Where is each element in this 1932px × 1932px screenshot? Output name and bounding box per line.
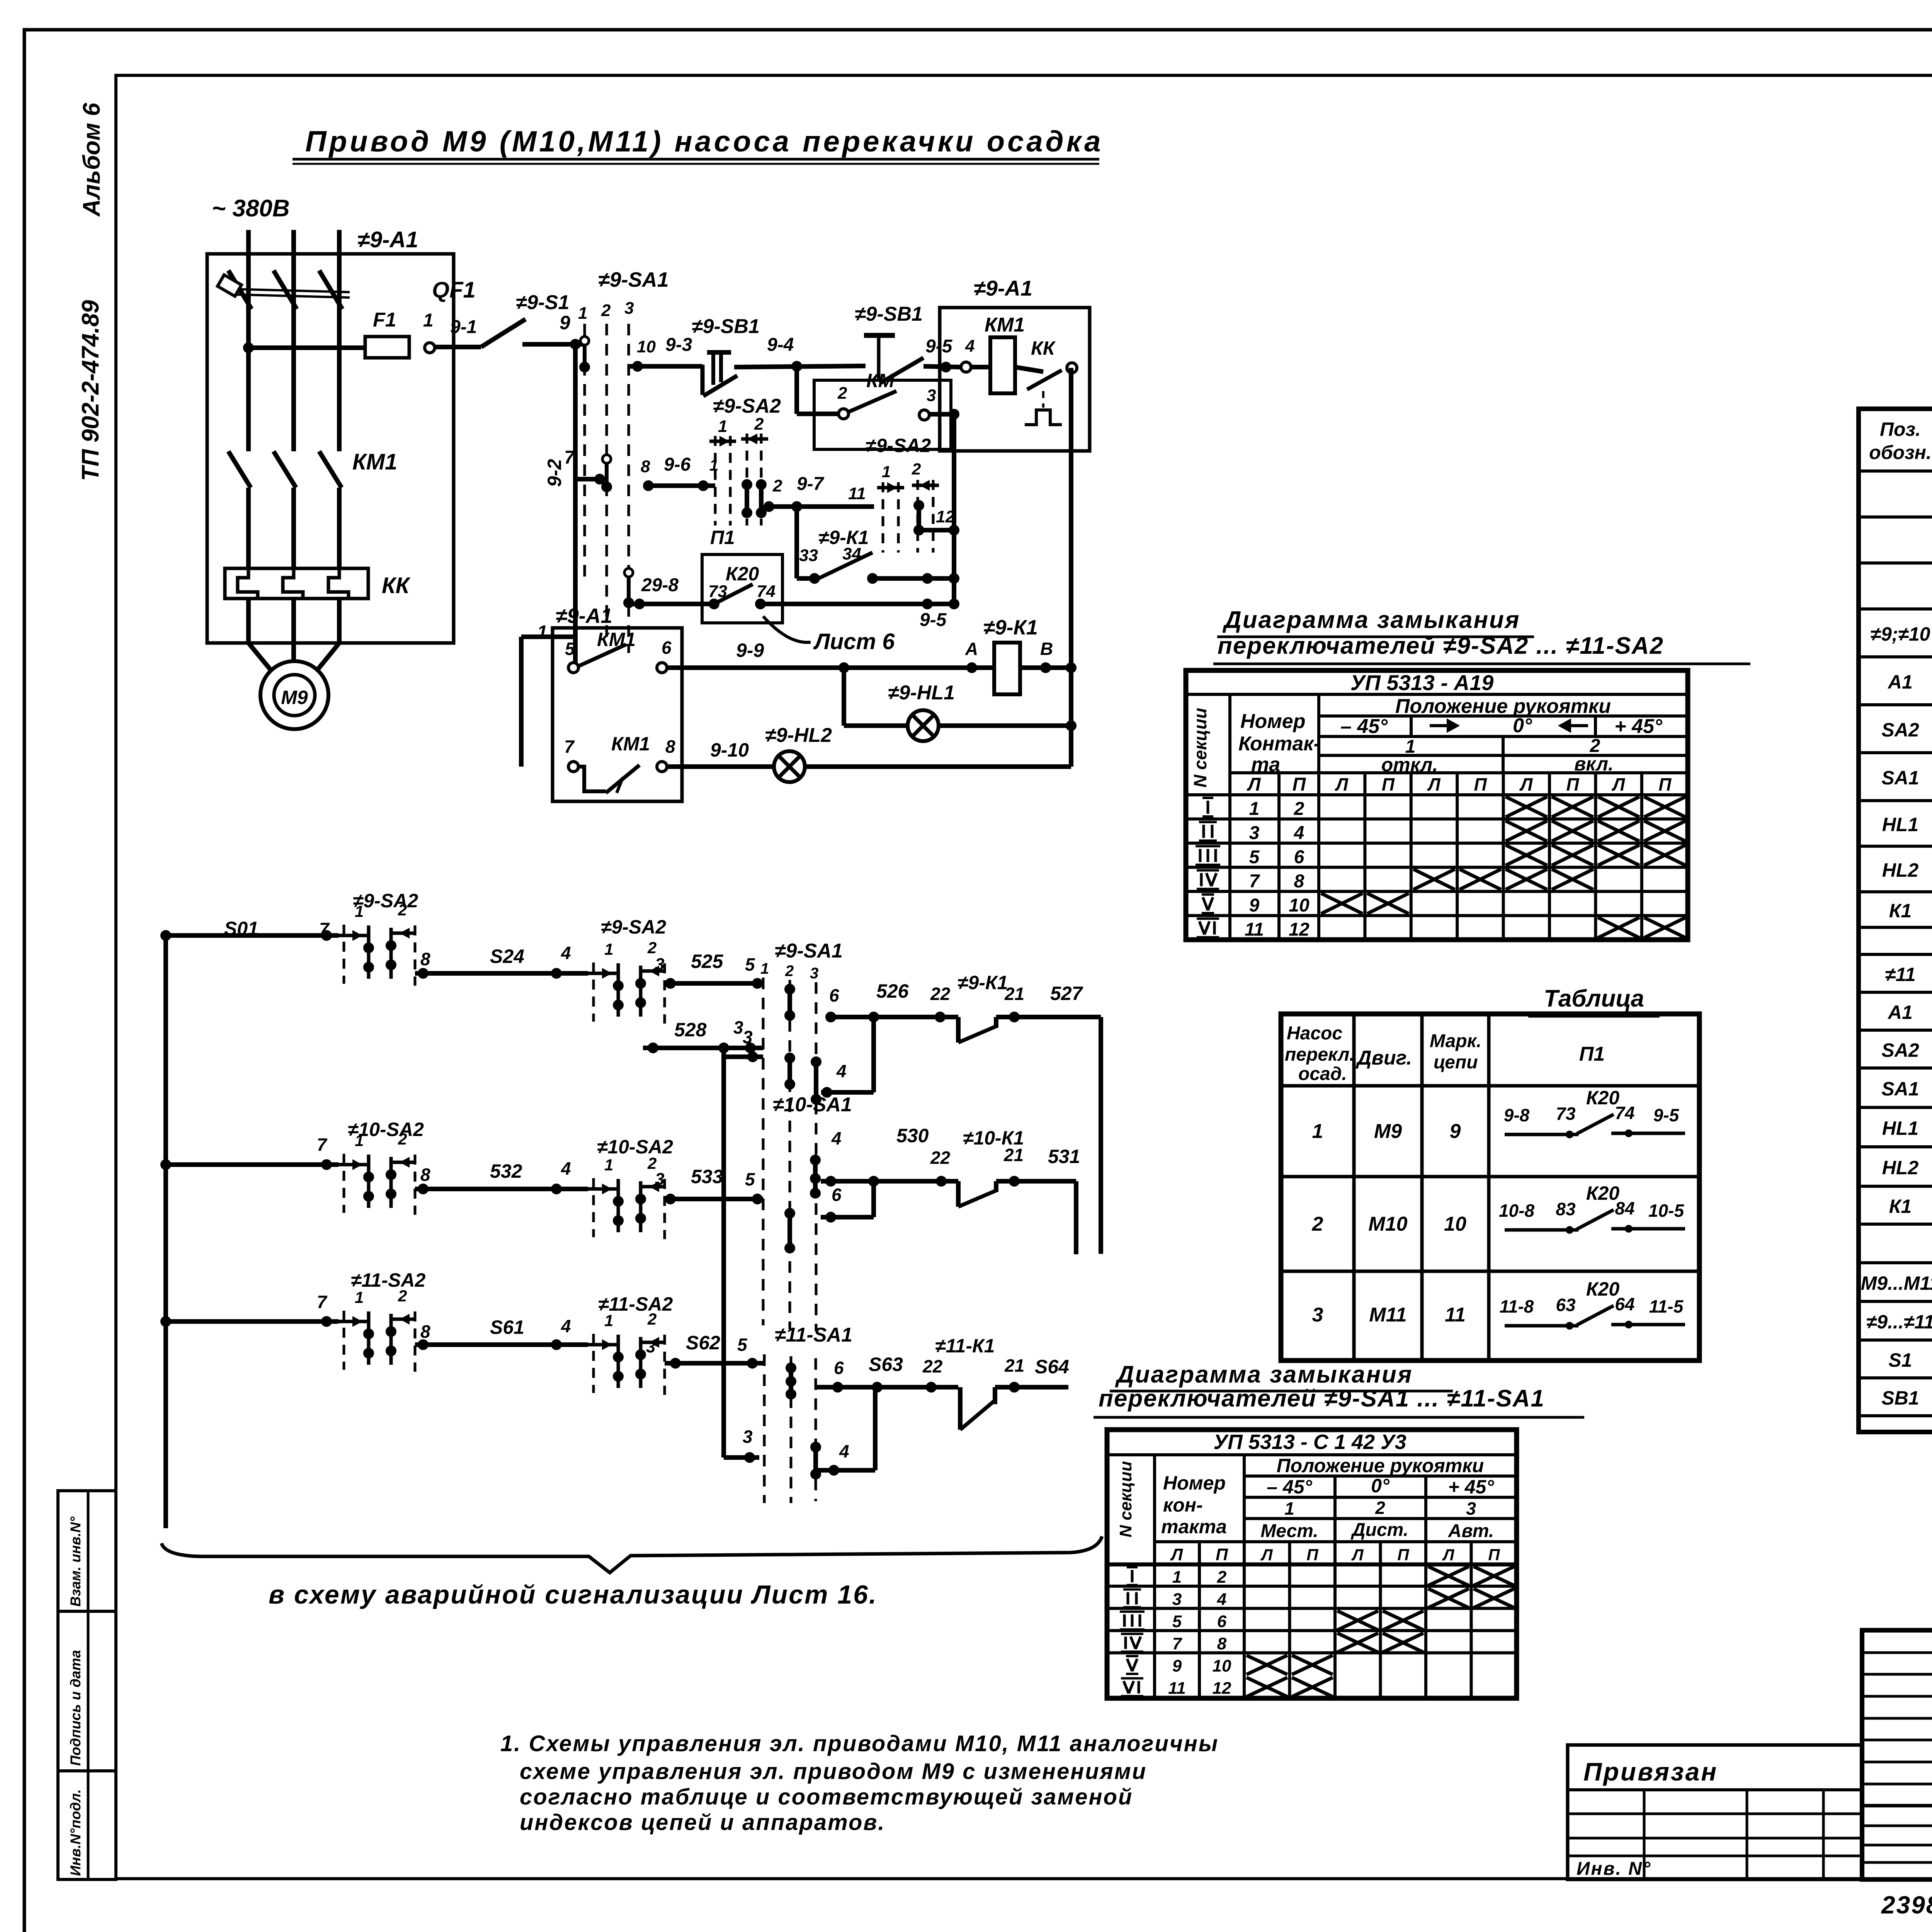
svg-text:12: 12 xyxy=(1289,920,1310,940)
stamp box Подпись и дата xyxy=(58,1611,116,1771)
svg-text:6: 6 xyxy=(1217,1612,1227,1631)
svg-text:2: 2 xyxy=(398,1130,407,1148)
svg-text:≠9-А1: ≠9-А1 xyxy=(556,604,612,628)
svg-text:Лист 6: Лист 6 xyxy=(813,629,895,654)
svg-text:1: 1 xyxy=(1249,799,1260,819)
svg-text:Л: Л xyxy=(1442,1546,1455,1564)
svg-text:УП 5313 - А19: УП 5313 - А19 xyxy=(1350,670,1494,695)
svg-text:3: 3 xyxy=(927,386,936,405)
svg-text:2: 2 xyxy=(647,1310,656,1328)
svg-text:9-5: 9-5 xyxy=(920,610,947,630)
svg-text:Инв. N°: Инв. N° xyxy=(1577,1859,1651,1879)
svg-text:9-10: 9-10 xyxy=(710,739,749,761)
svg-text:9-4: 9-4 xyxy=(767,335,794,355)
svg-text:2: 2 xyxy=(1375,1498,1385,1518)
svg-text:Л: Л xyxy=(1351,1546,1364,1564)
svg-text:9: 9 xyxy=(1172,1656,1182,1675)
svg-text:9-6: 9-6 xyxy=(664,454,691,475)
svg-text:≠9...≠11: ≠9...≠11 xyxy=(1866,1311,1932,1333)
svg-text:П: П xyxy=(1293,774,1306,795)
svg-text:6: 6 xyxy=(832,1185,842,1205)
svg-text:1. Схемы управления эл. п: 1. Схемы управления эл. приводами М10, М… xyxy=(500,1731,1219,1756)
wire L1 to fuse xyxy=(248,345,365,350)
leader to Лист 6 xyxy=(763,616,811,642)
svg-text:Альбом 6: Альбом 6 xyxy=(78,102,105,217)
svg-text:≠9-SA2: ≠9-SA2 xyxy=(866,435,931,456)
SA2 mid contacts xyxy=(745,485,749,513)
svg-text:≠10-SA1: ≠10-SA1 xyxy=(773,1094,852,1116)
pump table xyxy=(1281,1014,1699,1361)
svg-text:2: 2 xyxy=(912,460,921,478)
svg-text:1: 1 xyxy=(537,622,548,643)
SA1-11 contact lower xyxy=(813,1447,818,1474)
svg-text:К20: К20 xyxy=(1586,1087,1620,1109)
svg-text:10: 10 xyxy=(637,337,656,356)
wire to node xyxy=(522,342,585,347)
svg-text:Авт.: Авт. xyxy=(1448,1521,1494,1541)
svg-text:527: 527 xyxy=(1050,983,1083,1004)
svg-text:Двиг.: Двиг. xyxy=(1355,1047,1412,1069)
svg-text:5: 5 xyxy=(1172,1612,1182,1631)
svg-text:3: 3 xyxy=(624,299,634,318)
svg-text:М9...М11: М9...М11 xyxy=(1861,1272,1932,1294)
svg-text:73: 73 xyxy=(1556,1104,1576,1124)
svg-text:Дист.: Дист. xyxy=(1350,1520,1408,1540)
phase wire L1 xyxy=(246,230,251,451)
svg-text:HL2: HL2 xyxy=(1882,1157,1919,1179)
svg-text:S24: S24 xyxy=(490,946,524,967)
svg-text:КМ1: КМ1 xyxy=(985,314,1025,336)
loop 4 to row xyxy=(821,1090,874,1095)
svg-text:Насос: Насос xyxy=(1287,1023,1342,1044)
svg-text:Мест.: Мест. xyxy=(1260,1521,1318,1541)
svg-text:Диаграмма замыкания: Диаграмма замыкания xyxy=(1115,1361,1413,1388)
svg-text:К20: К20 xyxy=(1586,1182,1620,1204)
motor M9 xyxy=(260,661,328,729)
svg-text:11-8: 11-8 xyxy=(1500,1296,1534,1316)
svg-text:8: 8 xyxy=(665,736,675,757)
svg-text:11: 11 xyxy=(1168,1679,1186,1698)
svg-text:12: 12 xyxy=(1213,1679,1231,1698)
svg-text:4: 4 xyxy=(836,1061,847,1081)
svg-text:3: 3 xyxy=(655,955,664,974)
svg-text:4: 4 xyxy=(561,1158,571,1179)
svg-text:1: 1 xyxy=(709,456,718,474)
svg-text:≠9-SA1: ≠9-SA1 xyxy=(775,940,843,962)
svg-text:74: 74 xyxy=(757,582,776,601)
svg-text:3: 3 xyxy=(1312,1304,1323,1326)
SA1-10 contact upper xyxy=(787,1058,792,1084)
svg-text:530: 530 xyxy=(896,1125,929,1146)
svg-text:0°: 0° xyxy=(1371,1475,1390,1497)
svg-text:1: 1 xyxy=(355,1131,364,1150)
svg-text:3: 3 xyxy=(743,1427,753,1447)
brace xyxy=(162,1536,1102,1573)
svg-text:обозн.: обозн. xyxy=(1869,442,1932,463)
svg-text:Положение рукоятки: Положение рукоятки xyxy=(1395,695,1611,718)
attachment box Привязан xyxy=(1568,1745,1862,1879)
svg-text:П1: П1 xyxy=(1579,1043,1605,1065)
svg-text:8: 8 xyxy=(420,1165,430,1185)
svg-text:П: П xyxy=(1566,774,1579,794)
svg-text:9-1: 9-1 xyxy=(450,317,477,337)
svg-text:Диаграмма замыкания: Диаграмма замыкания xyxy=(1222,607,1520,633)
svg-text:КК: КК xyxy=(382,573,411,598)
svg-text:6: 6 xyxy=(834,1358,844,1378)
svg-text:HL1: HL1 xyxy=(1882,1117,1918,1139)
svg-text:21: 21 xyxy=(1003,1145,1024,1165)
svg-text:3: 3 xyxy=(655,1170,664,1189)
svg-text:4: 4 xyxy=(839,1441,849,1461)
parts list table xyxy=(1859,409,1932,1432)
svg-text:2: 2 xyxy=(601,301,611,320)
svg-text:К1: К1 xyxy=(1889,900,1912,922)
closing diagram table UP5313-A19 xyxy=(1186,670,1688,940)
svg-text:1: 1 xyxy=(423,310,434,331)
svg-text:согласно таблице и соот: согласно таблице и соответствующей замен… xyxy=(520,1784,1133,1810)
svg-text:1: 1 xyxy=(578,304,587,323)
svg-text:П: П xyxy=(1382,774,1395,794)
svg-text:П: П xyxy=(1306,1546,1318,1564)
svg-text:5: 5 xyxy=(1249,847,1260,867)
svg-text:1: 1 xyxy=(604,1311,613,1330)
svg-text:2: 2 xyxy=(1217,1568,1227,1587)
SA2 mid column pair 1 xyxy=(714,436,717,526)
table A19 data rows xyxy=(1207,801,1209,814)
svg-text:22: 22 xyxy=(930,1148,951,1168)
svg-text:К20: К20 xyxy=(1586,1278,1620,1300)
svg-text:7: 7 xyxy=(1172,1634,1183,1653)
thermal relay KK heaters xyxy=(225,568,368,599)
svg-text:83: 83 xyxy=(1556,1199,1576,1219)
svg-text:N секции: N секции xyxy=(1190,708,1210,787)
svg-text:≠11-SA2: ≠11-SA2 xyxy=(351,1269,425,1291)
svg-text:8: 8 xyxy=(1217,1634,1227,1653)
svg-text:29-8: 29-8 xyxy=(641,575,679,595)
svg-text:КК: КК xyxy=(1031,337,1056,359)
svg-text:1: 1 xyxy=(1172,1568,1182,1587)
svg-text:М9: М9 xyxy=(1374,1120,1402,1143)
svg-text:вкл.: вкл. xyxy=(1574,753,1614,775)
wire from 9-4 down to KM contact xyxy=(794,366,799,414)
circuit breaker QF1 xyxy=(228,270,252,309)
SA1 column 1 xyxy=(583,324,586,580)
svg-text:≠9;≠10: ≠9;≠10 xyxy=(1871,623,1930,645)
svg-text:+ 45°: + 45° xyxy=(1448,1476,1495,1498)
svg-text:ТП 902-2-474.89: ТП 902-2-474.89 xyxy=(77,300,104,481)
svg-text:Инв.N°подл.: Инв.N°подл. xyxy=(68,1789,83,1876)
stamp box Взам. инв.N xyxy=(58,1491,116,1611)
holding contact box KM xyxy=(814,380,951,449)
svg-text:Привязан: Привязан xyxy=(1583,1757,1718,1786)
svg-text:А: А xyxy=(965,639,978,659)
contactor KM1 main contacts xyxy=(246,309,251,451)
svg-text:84: 84 xyxy=(1615,1198,1634,1218)
svg-text:переключателей ≠9-SА2 ... ≠1: переключателей ≠9-SА2 ... ≠11-SА2 xyxy=(1218,633,1664,659)
svg-text:П: П xyxy=(1216,1545,1228,1564)
svg-text:S61: S61 xyxy=(490,1316,524,1338)
svg-text:11-5: 11-5 xyxy=(1649,1296,1684,1316)
svg-text:К1: К1 xyxy=(1889,1196,1912,1217)
SA2 mid column pair 2 xyxy=(746,434,748,526)
svg-text:7: 7 xyxy=(1249,871,1260,892)
svg-text:21: 21 xyxy=(1004,984,1024,1004)
SA1 column 3 xyxy=(628,324,630,653)
svg-text:S64: S64 xyxy=(1035,1356,1069,1378)
svg-text:S1: S1 xyxy=(1888,1349,1912,1371)
svg-text:2: 2 xyxy=(647,939,656,957)
SA1 contact col3 xyxy=(624,568,633,577)
svg-text:1: 1 xyxy=(604,1156,613,1174)
svg-text:перекл.: перекл. xyxy=(1285,1044,1355,1065)
svg-text:9-9: 9-9 xyxy=(736,639,764,661)
svg-text:≠9-HL1: ≠9-HL1 xyxy=(888,682,955,704)
svg-text:533: 533 xyxy=(691,1166,723,1187)
svg-text:переключателей ≠9-SA1 ...: переключателей ≠9-SA1 ... ≠11-SA1 xyxy=(1099,1385,1545,1412)
svg-text:2: 2 xyxy=(785,963,794,980)
svg-text:К20: К20 xyxy=(726,563,759,585)
svg-text:КМ1: КМ1 xyxy=(352,449,397,474)
svg-text:F1: F1 xyxy=(373,309,396,331)
title block revision grid xyxy=(1862,1651,1932,1654)
svg-text:Номер: Номер xyxy=(1240,710,1305,733)
svg-text:3: 3 xyxy=(733,1017,743,1037)
svg-text:2: 2 xyxy=(754,415,764,434)
svg-text:6: 6 xyxy=(1294,847,1304,867)
SA2 right column pair 2 xyxy=(917,480,919,553)
power cubicle box A1 xyxy=(207,254,454,643)
SA1-11 contact in xyxy=(789,1368,793,1394)
svg-text:4: 4 xyxy=(561,1316,571,1336)
title block frame xyxy=(1862,1630,1932,1879)
svg-text:3: 3 xyxy=(810,965,818,982)
wire 9-5 from K20 xyxy=(757,602,954,606)
svg-text:5: 5 xyxy=(745,1169,755,1189)
svg-text:КМ: КМ xyxy=(866,370,895,391)
svg-text:6: 6 xyxy=(662,638,672,658)
svg-text:Марк.: Марк. xyxy=(1430,1031,1481,1051)
svg-text:1: 1 xyxy=(718,417,727,436)
svg-text:3: 3 xyxy=(1172,1590,1182,1609)
svg-text:4: 4 xyxy=(1294,823,1304,844)
svg-text:531: 531 xyxy=(1048,1146,1080,1167)
svg-text:Взам. инв.N°: Взам. инв.N° xyxy=(68,1517,83,1607)
svg-text:10: 10 xyxy=(1444,1213,1466,1235)
svg-text:Поз.: Поз. xyxy=(1880,418,1921,440)
svg-text:9: 9 xyxy=(1450,1120,1461,1143)
svg-text:Положение рукоятки: Положение рукоятки xyxy=(1277,1455,1484,1476)
svg-text:74: 74 xyxy=(1615,1103,1634,1123)
svg-text:22: 22 xyxy=(922,1356,943,1376)
svg-text:12: 12 xyxy=(936,507,955,526)
svg-text:≠9-S1: ≠9-S1 xyxy=(516,291,569,314)
svg-text:А1: А1 xyxy=(1887,671,1913,693)
svg-text:QF1: QF1 xyxy=(432,277,476,303)
svg-text:Подпись и дата: Подпись и дата xyxy=(68,1650,83,1766)
svg-text:кон-: кон- xyxy=(1163,1494,1203,1516)
svg-text:22: 22 xyxy=(930,984,951,1004)
svg-text:3: 3 xyxy=(743,1027,753,1047)
svg-text:8: 8 xyxy=(420,949,430,969)
svg-text:11: 11 xyxy=(1445,1304,1466,1326)
svg-text:1: 1 xyxy=(1312,1120,1323,1143)
table C142 data rows xyxy=(1131,1570,1134,1582)
SA1-10 contact lower xyxy=(787,1213,792,1248)
svg-text:532: 532 xyxy=(490,1160,522,1182)
svg-text:10-5: 10-5 xyxy=(1648,1201,1684,1221)
svg-text:+ 45°: + 45° xyxy=(1614,715,1663,738)
svg-text:64: 64 xyxy=(1615,1294,1634,1314)
svg-text:525: 525 xyxy=(691,951,724,972)
svg-text:S62: S62 xyxy=(686,1332,720,1354)
svg-text:7: 7 xyxy=(564,447,575,468)
svg-text:1: 1 xyxy=(604,940,613,958)
bus 9-2 vertical xyxy=(573,344,578,668)
svg-text:2: 2 xyxy=(1312,1213,1323,1235)
closing diagram table UP5313-C142 xyxy=(1107,1430,1517,1698)
svg-text:7: 7 xyxy=(317,1134,328,1155)
svg-text:≠10-SA2: ≠10-SA2 xyxy=(597,1136,673,1158)
SA2 right column pair 1 xyxy=(882,482,884,553)
svg-text:8: 8 xyxy=(1294,871,1304,892)
svg-text:УП 5313 - С 1 42 У3: УП 5313 - С 1 42 У3 xyxy=(1213,1430,1406,1454)
svg-text:≠9-HL2: ≠9-HL2 xyxy=(765,724,832,747)
SA1 contact top xyxy=(580,337,589,345)
svg-text:1: 1 xyxy=(355,902,364,920)
motor leads xyxy=(246,599,251,643)
svg-text:≠11-SA1: ≠11-SA1 xyxy=(775,1324,852,1346)
svg-text:1: 1 xyxy=(882,463,891,481)
svg-text:3: 3 xyxy=(1249,823,1260,844)
svg-text:Привод М9 (М10,М11) насоса: Привод М9 (М10,М11) насоса перекачки оса… xyxy=(305,125,1103,158)
svg-text:такта: такта xyxy=(1161,1516,1227,1537)
svg-text:7: 7 xyxy=(317,1292,328,1312)
svg-text:М10: М10 xyxy=(1368,1213,1407,1235)
fuse F1 xyxy=(365,337,409,358)
svg-text:S63: S63 xyxy=(869,1354,903,1375)
svg-text:Л: Л xyxy=(1260,1546,1273,1564)
svg-text:≠9-К1: ≠9-К1 xyxy=(983,616,1038,639)
svg-text:SВ1: SВ1 xyxy=(1881,1387,1919,1409)
svg-text:М11: М11 xyxy=(1369,1304,1406,1326)
svg-text:HL2: HL2 xyxy=(1882,859,1919,881)
svg-text:9-3: 9-3 xyxy=(665,335,692,355)
svg-text:11: 11 xyxy=(848,484,866,503)
svg-text:2: 2 xyxy=(837,384,847,403)
svg-text:9-7: 9-7 xyxy=(797,474,825,494)
svg-text:8: 8 xyxy=(641,457,650,476)
wire from 9-7 down xyxy=(794,507,799,578)
svg-text:≠9-SB1: ≠9-SB1 xyxy=(855,303,923,325)
svg-text:~ 380В: ~ 380В xyxy=(212,195,290,222)
SA1-9 contact in xyxy=(787,989,792,1015)
svg-text:4: 4 xyxy=(965,337,975,355)
svg-text:4: 4 xyxy=(1217,1590,1226,1609)
svg-text:33: 33 xyxy=(799,546,818,565)
svg-text:10: 10 xyxy=(1213,1656,1231,1675)
svg-text:≠9-SA1: ≠9-SA1 xyxy=(598,268,669,291)
svg-text:цепи: цепи xyxy=(1434,1052,1478,1073)
node after S1 xyxy=(570,339,581,350)
svg-text:осад.: осад. xyxy=(1298,1064,1347,1084)
svg-text:5: 5 xyxy=(565,639,575,659)
SA1-9 contact out4 xyxy=(814,1062,818,1099)
svg-text:≠9-К1: ≠9-К1 xyxy=(957,972,1008,993)
svg-text:10-8: 10-8 xyxy=(1499,1201,1534,1221)
svg-text:В: В xyxy=(1040,639,1053,659)
svg-text:П: П xyxy=(1658,774,1672,794)
SA1-10 contact mid xyxy=(813,1160,818,1193)
svg-text:0°: 0° xyxy=(1513,714,1532,737)
svg-text:9: 9 xyxy=(560,312,570,333)
svg-text:SА2: SА2 xyxy=(1881,1039,1919,1061)
svg-text:1: 1 xyxy=(355,1288,364,1306)
svg-text:П1: П1 xyxy=(710,527,735,548)
svg-text:4: 4 xyxy=(561,943,571,963)
svg-text:5: 5 xyxy=(745,954,755,975)
svg-text:1: 1 xyxy=(1284,1498,1294,1519)
svg-text:схеме управления эл. пр: схеме управления эл. приводом М9 с измен… xyxy=(520,1759,1147,1784)
svg-text:– 45°: – 45° xyxy=(1340,715,1388,738)
svg-text:Номер: Номер xyxy=(1163,1472,1226,1494)
svg-text:Л: Л xyxy=(1612,774,1626,794)
svg-text:2: 2 xyxy=(772,476,782,495)
svg-text:≠9-А1: ≠9-А1 xyxy=(974,276,1032,300)
svg-text:63: 63 xyxy=(1556,1295,1576,1315)
svg-text:≠9-А1: ≠9-А1 xyxy=(357,227,418,252)
svg-text:Л: Л xyxy=(1519,774,1533,794)
svg-text:HL1: HL1 xyxy=(1882,814,1918,835)
svg-text:5: 5 xyxy=(737,1335,748,1355)
svg-text:1: 1 xyxy=(760,960,769,977)
svg-text:индексов цепей и аппара: индексов цепей и аппаратов. xyxy=(520,1810,886,1835)
svg-text:≠11: ≠11 xyxy=(1885,964,1915,985)
stamp box Инв.N подл. xyxy=(58,1771,116,1879)
lamp branch HL1 xyxy=(842,668,846,726)
svg-text:11: 11 xyxy=(1245,920,1264,940)
phase wire L3 xyxy=(337,230,342,451)
svg-text:А1: А1 xyxy=(1887,1002,1913,1023)
svg-text:М9: М9 xyxy=(281,687,308,708)
svg-text:7: 7 xyxy=(564,736,575,757)
svg-text:в схему аварийной сигнализа: в схему аварийной сигнализации Лист 16. xyxy=(269,1580,878,1609)
svg-text:П: П xyxy=(1488,1546,1500,1564)
wire from contact 12 to bus xyxy=(919,528,954,532)
svg-text:9-2: 9-2 xyxy=(544,459,565,487)
svg-text:9-8: 9-8 xyxy=(1504,1105,1530,1125)
svg-text:≠11-К1: ≠11-К1 xyxy=(935,1335,995,1357)
phase wire L2 xyxy=(291,230,296,451)
SA1 column 2 xyxy=(605,324,608,645)
svg-text:N секции: N секции xyxy=(1116,1461,1135,1537)
svg-text:Л: Л xyxy=(1247,774,1261,795)
svg-text:≠9-SB1: ≠9-SB1 xyxy=(692,315,760,338)
svg-text:Л: Л xyxy=(1170,1545,1183,1564)
svg-text:3: 3 xyxy=(646,1337,655,1356)
svg-text:21: 21 xyxy=(1004,1355,1024,1376)
svg-text:П: П xyxy=(1397,1546,1409,1564)
svg-text:КМ1: КМ1 xyxy=(611,733,650,755)
svg-text:10: 10 xyxy=(1289,895,1310,916)
terminal 1 xyxy=(425,343,435,353)
svg-text:SА1: SА1 xyxy=(1881,767,1919,789)
svg-text:та: та xyxy=(1251,753,1280,776)
svg-text:SА2: SА2 xyxy=(1881,719,1919,741)
svg-text:П: П xyxy=(1474,774,1487,794)
svg-text:528: 528 xyxy=(674,1019,707,1041)
svg-text:8: 8 xyxy=(420,1321,430,1342)
svg-text:– 45°: – 45° xyxy=(1267,1476,1312,1498)
